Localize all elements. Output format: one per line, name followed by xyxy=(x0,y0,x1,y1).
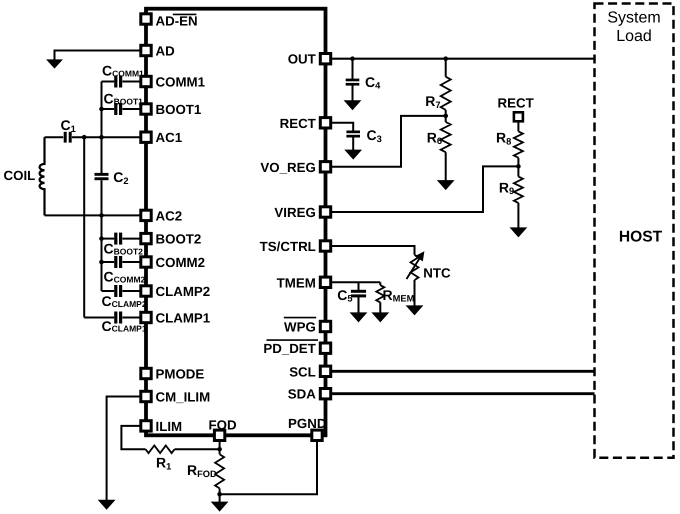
node RECT test point xyxy=(514,112,523,121)
svg-text:Load: Load xyxy=(616,28,652,45)
pin CLAMP1 xyxy=(141,312,151,322)
wire Cclamp2 to node xyxy=(102,290,115,292)
capacitor C_COMM1 xyxy=(114,76,117,88)
pin SCL xyxy=(320,366,330,376)
svg-text:PGND: PGND xyxy=(288,416,327,431)
wire AC2 line xyxy=(45,214,142,216)
node Ccomm2 junction xyxy=(99,260,104,265)
inductor COIL xyxy=(40,137,45,215)
svg-text:BOOT1: BOOT1 xyxy=(156,102,202,117)
svg-text:NTC: NTC xyxy=(423,265,451,280)
pin COMM1 xyxy=(141,76,151,86)
wire Rmem top xyxy=(379,282,381,285)
thermistor NTC xyxy=(411,255,419,280)
svg-text:AD-EN: AD-EN xyxy=(156,13,198,28)
svg-text:VIREG: VIREG xyxy=(274,205,315,220)
wire R7 top xyxy=(445,59,447,77)
capacitor C_BOOT1 xyxy=(114,103,117,115)
wire NTC to ground xyxy=(414,280,416,306)
wire R7 to node xyxy=(445,110,447,116)
wire AC1 line xyxy=(72,136,141,138)
capacitor C3 xyxy=(346,131,360,134)
wire Ccomm2 to node xyxy=(102,261,115,263)
wire R1 to FOD node xyxy=(175,448,220,450)
svg-text:COIL: COIL xyxy=(4,168,36,183)
capacitor C_COMM2 xyxy=(114,256,117,268)
svg-text:WPG: WPG xyxy=(284,320,316,335)
node AC2-C2 junction xyxy=(99,213,104,218)
pin PMODE xyxy=(141,368,151,378)
wire ILIM to R1 xyxy=(121,426,145,449)
wire VIREG link xyxy=(330,166,518,212)
svg-text:PD_DET: PD_DET xyxy=(263,341,315,356)
svg-text:SCL: SCL xyxy=(289,364,316,379)
pin PGND xyxy=(312,430,322,440)
ground at R6 xyxy=(438,181,454,190)
pin VO_REG xyxy=(320,162,330,172)
wire RECT tp to R8 xyxy=(517,121,519,131)
wire C1 to coil xyxy=(45,136,64,138)
pin TS/CTRL xyxy=(320,241,330,251)
wire PGND to ground node xyxy=(220,440,317,494)
wire C4 to ground xyxy=(352,85,354,100)
ground at CM_ILIM xyxy=(99,500,115,509)
ground at C3 xyxy=(345,150,361,159)
svg-text:FOD: FOD xyxy=(209,417,237,432)
wire R9 to ground xyxy=(517,203,519,228)
wire CM_ILIM to ground xyxy=(107,397,141,501)
resistor R7 xyxy=(441,77,451,110)
capacitor C_CLAMP1 xyxy=(114,312,117,324)
capacitor C_BOOT2 xyxy=(114,233,117,245)
svg-text:COMM2: COMM2 xyxy=(156,255,206,270)
svg-text:CM_ILIM: CM_ILIM xyxy=(156,390,211,405)
pin AD xyxy=(141,45,151,55)
wire R6 top xyxy=(445,116,447,122)
wire CLAMP1 cap to pin xyxy=(122,317,141,319)
wire BOOT1 pin to Cboot1 xyxy=(122,108,141,110)
pin TMEM xyxy=(320,277,330,287)
wire SDA to HOST xyxy=(330,392,594,395)
node AC1-C1 junction xyxy=(82,135,87,140)
pin VIREG xyxy=(320,207,330,217)
wire AC1 to CLAMP1 vertical xyxy=(83,137,85,317)
ground at R_FOD xyxy=(212,502,228,511)
node OUT-R7 junction xyxy=(443,56,448,61)
svg-text:TMEM: TMEM xyxy=(277,275,316,290)
resistor R_FOD xyxy=(215,454,224,488)
svg-text:HOST: HOST xyxy=(619,229,663,246)
resistor R8 xyxy=(514,131,523,157)
wire AD to ground xyxy=(55,51,141,60)
wire VO_REG link xyxy=(330,116,445,167)
ground at C4 xyxy=(345,101,361,110)
op-amp U1 wireless power receiver IC body xyxy=(146,9,326,436)
wire R6 to ground xyxy=(445,152,447,180)
capacitor C1 xyxy=(64,132,67,143)
ground at R9 xyxy=(510,228,526,237)
svg-text:CLAMP1: CLAMP1 xyxy=(156,311,211,326)
wire C5 to ground xyxy=(358,297,360,313)
node AC1-C2 junction xyxy=(99,135,104,140)
System Load / HOST dashed box xyxy=(595,4,674,458)
svg-text:COMM1: COMM1 xyxy=(156,75,206,90)
wire C3 to ground xyxy=(352,137,354,150)
capacitor C2 xyxy=(95,173,109,176)
wire COMM1 pin to Ccomm1 xyxy=(122,81,141,83)
overline AD-EN xyxy=(173,13,197,15)
pin COMM2 xyxy=(141,257,151,267)
capacitor C4 xyxy=(346,79,360,82)
ground at R_MEM xyxy=(372,313,388,322)
wire RECT pin to C3 xyxy=(330,123,353,131)
node FOD junction xyxy=(217,447,222,452)
node R8-R9-VIREG junction xyxy=(516,164,521,169)
thermistor NTC arrow xyxy=(407,259,420,280)
overline PD_DET xyxy=(267,339,319,341)
wire SCL to HOST xyxy=(330,370,594,373)
svg-text:ILIM: ILIM xyxy=(156,419,183,434)
wire C2 bottom to AC2 and BOOT2/COMM2/CLAMP2 caps xyxy=(101,180,103,291)
resistor R1 xyxy=(146,446,175,454)
pin SDA xyxy=(320,389,330,399)
wire Rfod to ground node xyxy=(219,488,221,494)
wire R9 top xyxy=(517,166,519,176)
wire FOD node to Rfod xyxy=(219,449,221,454)
pin BOOT2 xyxy=(141,233,151,243)
pin OUT xyxy=(320,54,330,64)
node Cboot2 junction xyxy=(99,236,104,241)
pin FOD xyxy=(214,430,224,440)
pin CLAMP2 xyxy=(141,286,151,296)
pin WPG xyxy=(320,321,330,331)
svg-text:RECT: RECT xyxy=(498,95,534,110)
node OUT-C4 junction xyxy=(350,56,355,61)
svg-text:TS/CTRL: TS/CTRL xyxy=(260,239,316,254)
overline WPG xyxy=(284,317,316,319)
wire OUT to System Load xyxy=(330,58,594,60)
wire R8 to node xyxy=(517,158,519,167)
wire Ccomm1 to node xyxy=(102,81,115,83)
pin ILIM xyxy=(141,421,151,431)
svg-text:AC1: AC1 xyxy=(156,130,183,145)
svg-text:AD: AD xyxy=(156,44,176,59)
wire BOOT2 cap to pin xyxy=(122,238,141,240)
svg-text:OUT: OUT xyxy=(288,52,316,67)
resistor R_MEM xyxy=(376,285,384,302)
wire C5 top xyxy=(358,282,360,290)
pin BOOT1 xyxy=(141,104,151,114)
pin CM_ILIM xyxy=(141,391,151,401)
node Cboot1 junction xyxy=(99,107,104,112)
capacitor C5 xyxy=(351,290,366,293)
resistor R6 xyxy=(441,122,451,152)
pin AC2 xyxy=(141,210,151,220)
wire COMM2 cap to pin xyxy=(122,261,141,263)
wire C2 top xyxy=(101,137,103,173)
ground at C5 xyxy=(351,313,367,322)
wire TMEM line xyxy=(330,281,380,283)
wire ground node stub xyxy=(219,494,221,502)
pin AD-EN xyxy=(141,14,151,24)
resistor R9 xyxy=(514,177,523,203)
wire C4 top xyxy=(352,59,354,79)
node Rfod-PGND junction xyxy=(217,492,222,497)
wire Rmem to ground xyxy=(379,302,381,312)
pin RECT xyxy=(320,118,330,128)
capacitor C_CLAMP2 xyxy=(114,285,117,297)
svg-text:SDA: SDA xyxy=(288,387,316,402)
wire Cboot1 to node xyxy=(102,108,115,110)
svg-text:CLAMP2: CLAMP2 xyxy=(156,284,211,299)
pin PD_DET xyxy=(320,343,330,353)
node R7-R6-VO_REG junction xyxy=(443,114,448,119)
wire TS/CTRL to NTC xyxy=(330,246,414,255)
svg-text:BOOT2: BOOT2 xyxy=(156,232,202,247)
svg-text:PMODE: PMODE xyxy=(156,367,205,382)
wire vertical net AC1 caps xyxy=(101,82,103,138)
svg-text:AC2: AC2 xyxy=(156,208,183,223)
ground at NTC xyxy=(407,306,423,315)
svg-text:System: System xyxy=(607,9,660,26)
svg-text:VO_REG: VO_REG xyxy=(260,160,315,175)
wire Cclamp1 to node xyxy=(84,317,114,319)
wire CLAMP2 cap to pin xyxy=(122,290,141,292)
wire Cboot2 to node xyxy=(102,238,115,240)
svg-text:RECT: RECT xyxy=(280,116,316,131)
ground at AD xyxy=(47,60,62,68)
wire FOD pin down xyxy=(219,440,221,449)
pin AC1 xyxy=(141,132,151,142)
